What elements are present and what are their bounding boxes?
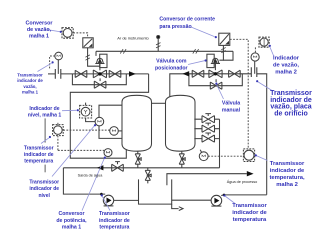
block valve B (vessel 2 right): [194, 123, 219, 132]
wire: LI1 tail to LT1: [86, 118, 96, 122]
svg-text:indicador de: indicador de: [17, 78, 43, 83]
actuator stem CV1: [99, 64, 101, 71]
svg-text:Conversor de corrente: Conversor de corrente: [159, 16, 215, 22]
actuator dome fill CV2: [213, 59, 218, 63]
wire: tank bottom outlet: [172, 204, 179, 209]
arrow: water outlet flow left: [97, 165, 104, 170]
orifice plate FE-1 (left): [55, 69, 61, 79]
svg-text:Transmissor: Transmissor: [99, 211, 130, 217]
diaphragm actuator dome CV2: [211, 58, 220, 63]
svg-text:de potência,: de potência,: [56, 218, 87, 224]
leader: conversor de corrente: [191, 27, 215, 37]
level standpipe on vessel 1: [99, 105, 122, 138]
diaphragm actuator dome CV1: [95, 58, 104, 63]
wire: 3-valve header vertical: [219, 119, 221, 168]
pneumatic slash marks on air supply drop: [156, 43, 161, 48]
wire: TE2 stub to vessel 2 bottom: [200, 150, 201, 153]
wire: stem from left orifice instrument to pipe: [57, 60, 59, 74]
svg-text:indicador de: indicador de: [24, 152, 54, 158]
svg-text:Conversor: Conversor: [26, 20, 54, 26]
leader: transmissor indicador de temperatura (bottom mid): [102, 196, 110, 210]
circle inside LI1 box: [81, 107, 90, 116]
signal: TY1 to TE1: [63, 129, 109, 131]
wire: feed pipe down-left-down run to vessel 1 bottom: [70, 74, 148, 158]
svg-text:Transmissor: Transmissor: [17, 72, 43, 77]
wire: right manifold riser from vessel 2 top: [170, 74, 252, 97]
wire: I/P signal down to CV2: [219, 46, 223, 61]
leader: indicador de nivel: [62, 109, 77, 111]
leader: transmissor placa de orificio: [258, 82, 272, 91]
wire: transfer pipe between vessels: [152, 102, 166, 104]
pump P2 base: [211, 205, 221, 207]
I/P converter box 1: [83, 38, 93, 48]
svg-text:Transmissor: Transmissor: [29, 179, 59, 185]
leader: valvula manual: [217, 85, 224, 100]
wire: right bypass line: [189, 74, 242, 86]
vessel V1: [122, 95, 152, 151]
svg-text:temperatura: temperatura: [24, 159, 53, 165]
instrument air header: [96, 50, 233, 52]
signal: TE2 to TT2 box: [208, 155, 243, 157]
wire: pump P1 discharge to tank: [114, 199, 139, 201]
temperature element circle TE1 on vessel 1: [110, 127, 119, 136]
indicator box FI2 (indicador de vazao malha 2): [259, 37, 269, 47]
svg-text:Transmissor: Transmissor: [24, 145, 54, 151]
wire: right manifold pipe after orifice: [257, 74, 267, 195]
instrument circle FI local (left orifice): [55, 52, 63, 60]
svg-text:de orifício: de orifício: [274, 110, 307, 117]
pneumatic slash marks on CV1 signal: [85, 55, 90, 60]
leader: transmissor malha 2: [256, 156, 267, 161]
temperature transmitter circle TT1: [104, 149, 112, 157]
leader: transmissor indicador de temperatura (bottom right): [225, 196, 235, 204]
transmitter box TY1 (left column): [53, 125, 64, 136]
I/P converter box 2 (conversor de corrente para pressao): [219, 33, 230, 45]
arrow: agua de processo flow right: [247, 171, 254, 176]
bypass valve V1c (left): [94, 78, 106, 88]
temperature element circle TE2 (vessel 2 bottom): [199, 152, 208, 161]
wire: TE1 stub to vessel wall: [118, 130, 122, 132]
drain valve vessel 1: [135, 151, 141, 168]
wire: left bypass line: [72, 74, 126, 85]
svg-text:temperatura,: temperatura,: [269, 175, 305, 181]
leader: transmissor indicador de nivel: [52, 126, 94, 177]
gate valve V2b (right manifold): [229, 70, 241, 77]
wire: tank dip pipe and process-water line: [167, 174, 247, 186]
wire: water outlet header: [63, 167, 219, 169]
svg-text:de vazão,: de vazão,: [273, 63, 299, 69]
svg-text:Válvula: Válvula: [222, 101, 240, 107]
wire: pump P2 discharge riser to loop 2: [221, 194, 267, 197]
pump P1: [103, 195, 113, 205]
svg-text:malha 2: malha 2: [276, 182, 298, 188]
leader: transmissor indicador de vazao malha 1: [38, 63, 52, 71]
svg-text:temperatura: temperatura: [99, 224, 129, 230]
pump P1 impeller: [107, 198, 112, 204]
actuator dome fill CV1: [98, 59, 103, 63]
arrow: flow left into vessel 2 riser: [182, 71, 189, 76]
water tank (open top): [139, 179, 172, 204]
leader: conversor de vazao: [48, 30, 60, 32]
orifice plate FE-2 (right): [251, 67, 256, 77]
leader: valvula com posicionador: [188, 61, 205, 65]
wire: outlet down to pump 1 suction: [63, 168, 105, 194]
blue leader lines: [38, 27, 274, 211]
instrument boxes (top): [62, 28, 269, 162]
wire: I/P signal down to CV1 positioner: [88, 48, 100, 66]
svg-text:manual: manual: [222, 107, 241, 113]
svg-text:indicador de: indicador de: [29, 186, 59, 192]
level indicator box LI1: [80, 105, 92, 118]
tank inlet valve (from drain header): [145, 168, 151, 184]
small tag squiggles inside instrument circles: [57, 55, 257, 157]
svg-text:Água de processo: Água de processo: [227, 180, 258, 184]
circle inside TY1: [54, 126, 63, 135]
wire: air branch to CV1: [95, 51, 97, 56]
leader arrow dots: [49, 31, 271, 197]
svg-text:malha 1: malha 1: [62, 224, 81, 230]
svg-text:posicionador: posicionador: [155, 66, 188, 72]
vertical pointer line left column: [44, 118, 46, 172]
pump P1 base: [104, 205, 114, 207]
junction dot at pump1 suction: [100, 193, 103, 196]
bypass valve V2c (right): [210, 79, 222, 89]
control valve CV2 body: [209, 70, 222, 78]
converter box FY1 (conversor de vazao): [62, 28, 73, 39]
manual valve on water outlet: [112, 162, 124, 172]
pneumatic slash marks on air header left: [120, 49, 126, 54]
svg-text:Indicador de: Indicador de: [29, 106, 59, 112]
svg-text:malha 1: malha 1: [29, 33, 49, 39]
leader: conversor de potencia: [82, 158, 104, 210]
svg-text:Válvula com: Válvula com: [156, 59, 187, 65]
wire: stem from right orifice instrument: [254, 61, 256, 74]
signal: FI2 box to orifice instrument: [254, 47, 256, 52]
pneumatic slash marks on air header right: [193, 49, 199, 54]
positioner box CV1: [100, 54, 107, 67]
leader: transmissor indicador de temperatura (left): [41, 138, 49, 144]
wire: main feed pipe left segment: [48, 73, 55, 75]
svg-text:Conversor: Conversor: [59, 211, 85, 217]
gate valve V2a (right manifold): [192, 70, 204, 77]
block valve A (vessel 2 right): [194, 114, 219, 123]
gate valve V1a (left manifold): [75, 70, 87, 77]
signal: TY1 top stub: [57, 121, 59, 124]
svg-text:indicador de: indicador de: [270, 168, 305, 174]
arrow: feed flow right after left manifold: [129, 71, 136, 76]
leader: indicador de vazao malha 2: [270, 46, 274, 55]
actuator stem CV2: [214, 64, 216, 71]
air supply point dot: [157, 36, 160, 39]
transmitter box TT2 (malha 2): [243, 149, 254, 162]
svg-text:nível, malha 1: nível, malha 1: [28, 113, 62, 119]
junction dot at pump2 discharge: [223, 194, 226, 197]
flow arrows (filled): [97, 71, 254, 176]
signal: FY1 to I/P1: [73, 33, 87, 38]
wire: air supply drop: [157, 38, 159, 51]
svg-text:Transmissor: Transmissor: [232, 203, 267, 209]
signal: TY1 bottom stub: [57, 136, 59, 151]
drain valve vessel 2: [179, 151, 185, 168]
open arrow at tank outlet: [179, 207, 183, 211]
svg-text:Saída de água: Saída de água: [78, 174, 104, 178]
level transmitter circle LT1: [95, 117, 104, 126]
control valve CV1 body: [93, 70, 106, 78]
block valve C (vessel 2 right): [194, 133, 219, 142]
wire: tank to pump 2 suction: [172, 199, 211, 201]
pneumatic slash marks on CV2 signal: [221, 48, 226, 53]
svg-text:de vazão,: de vazão,: [27, 27, 52, 33]
wire: LI1 top tick: [85, 103, 87, 106]
gate valve V1b (left manifold): [109, 70, 121, 77]
svg-text:indicador de: indicador de: [99, 218, 130, 224]
wire: main feed pipe through left valve manifold: [61, 73, 149, 75]
svg-text:indicador de: indicador de: [232, 210, 267, 216]
svg-text:temperatura: temperatura: [233, 217, 267, 223]
dashed instrument signal lines: [50, 33, 256, 156]
wire: air branch to CV2: [223, 51, 233, 60]
pump P2: [211, 195, 222, 206]
signal: left orifice FIT: [50, 56, 55, 70]
signal: I/P2 to TT2 box (loop 2): [230, 39, 248, 149]
control valve CV1 center dot: [98, 72, 101, 75]
svg-text:malha 2: malha 2: [275, 70, 297, 76]
svg-text:malha 1: malha 1: [22, 90, 39, 95]
vessel V2: [166, 95, 196, 151]
svg-text:vazão,: vazão,: [23, 84, 36, 89]
svg-text:Transmissor: Transmissor: [270, 161, 305, 167]
instrument circle (right orifice local): [251, 53, 259, 61]
control valve CV2 center dot: [214, 72, 217, 75]
signal: to TT1 circle: [58, 149, 104, 151]
pump P2 impeller: [214, 198, 219, 204]
svg-text:Indicador: Indicador: [273, 56, 300, 62]
positioner box CV2: [207, 54, 214, 67]
svg-text:para pressão: para pressão: [159, 24, 191, 30]
svg-text:nível: nível: [38, 193, 50, 199]
svg-text:Ar de instrumento: Ar de instrumento: [117, 35, 149, 40]
